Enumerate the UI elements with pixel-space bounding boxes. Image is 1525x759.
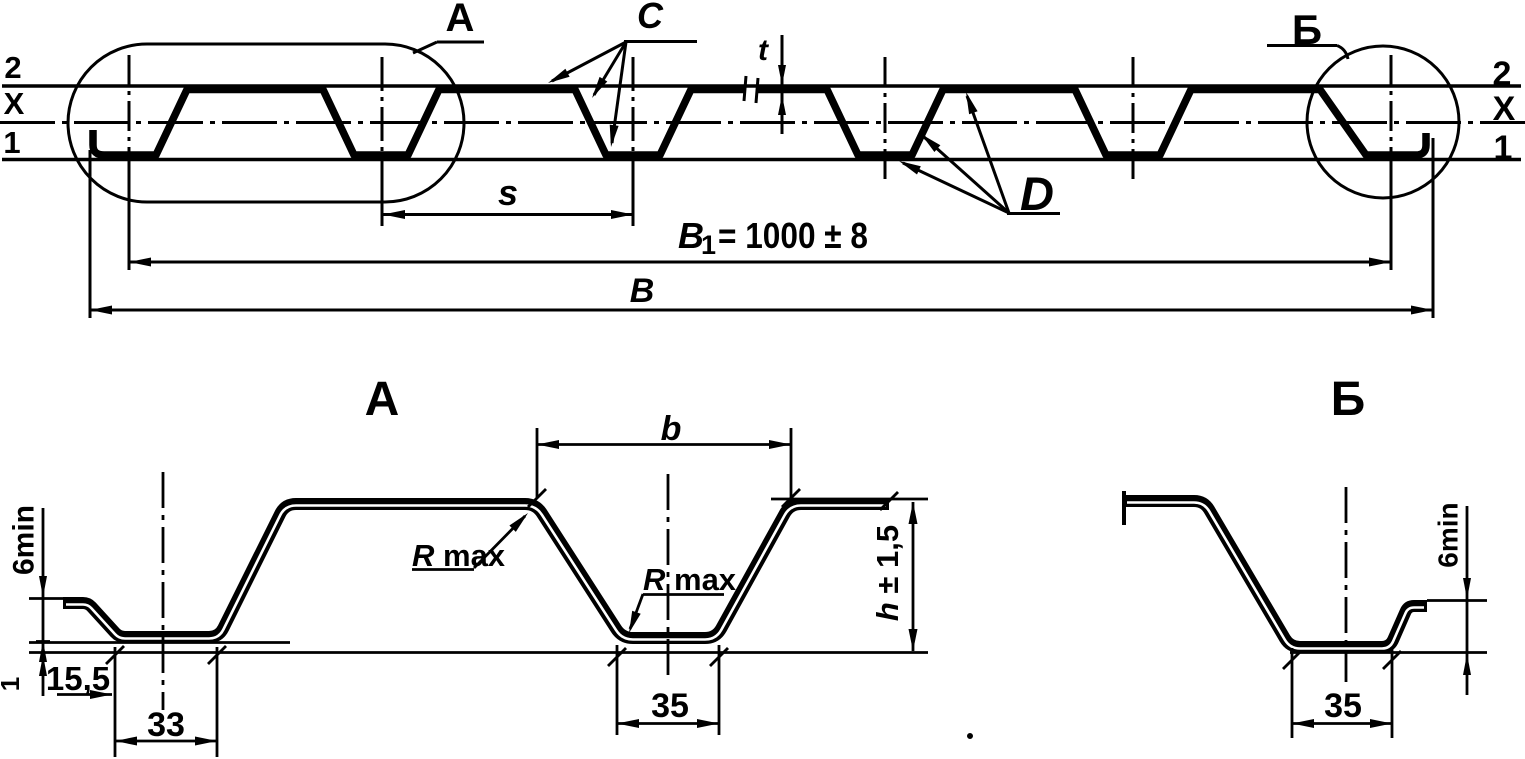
svg-text:= 1000 ± 8: = 1000 ± 8 [718,215,868,256]
svg-text:15,5: 15,5 [46,660,110,697]
svg-text:1: 1 [1494,129,1513,167]
svg-text:2: 2 [1493,55,1512,93]
svg-text:R max: R max [643,562,737,597]
svg-text:X: X [1493,90,1516,128]
svg-text:А: А [446,0,475,40]
svg-text:35: 35 [651,687,689,725]
svg-text:b: b [661,410,682,448]
svg-text:s: s [498,172,518,213]
svg-text:h ± 1,5: h ± 1,5 [870,525,905,621]
svg-text:Б: Б [1331,373,1366,426]
svg-text:1: 1 [0,677,25,691]
svg-text:А: А [365,373,400,426]
svg-text:2: 2 [4,50,21,85]
svg-text:t: t [758,34,770,67]
svg-text:C: C [637,0,664,36]
svg-text:1: 1 [701,230,716,260]
svg-text:35: 35 [1324,687,1362,725]
svg-text:33: 33 [147,706,185,744]
svg-text:1: 1 [3,125,20,160]
svg-text:B: B [630,272,655,310]
svg-text:R max: R max [412,538,506,573]
svg-text:6min: 6min [1433,502,1464,567]
svg-text:X: X [4,86,25,121]
svg-text:6min: 6min [8,505,41,575]
